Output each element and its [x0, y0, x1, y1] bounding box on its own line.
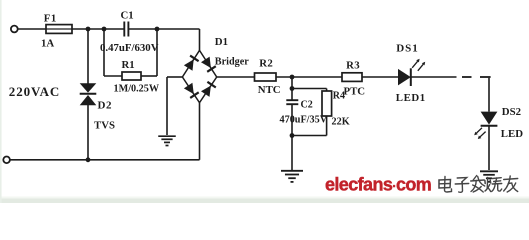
wire: R1 right branch up [141, 75, 157, 77]
wire: bottom terminal to bridge (bottom rail) [10, 159, 200, 161]
svg-text:220VAC: 220VAC [9, 84, 60, 99]
transient suppressor D2 (TVS) [80, 83, 97, 105]
wire: bridge left (DC-) to ground [167, 76, 182, 78]
wire: F1 to C1 left plate (top rail) [72, 28, 124, 30]
junction: C2/R4 tap [290, 75, 295, 80]
junction: D2 on bottom rail [86, 157, 91, 162]
resistor R1 [122, 72, 141, 80]
wire: bridge right (DC+) to R2 [217, 76, 255, 78]
svg-text:1A: 1A [41, 37, 54, 49]
wire: DS1 to dashed continuation [411, 76, 457, 78]
wire: top rail to D2 [87, 29, 89, 84]
wire: R2 to R3 [276, 76, 342, 78]
svg-text:22K: 22K [332, 116, 350, 127]
junction: R1/C1 left node [102, 27, 107, 32]
svg-text:F1: F1 [44, 13, 57, 25]
resistor R2 [255, 73, 277, 81]
terminal: AC input top [11, 26, 18, 33]
capacitor C1 [124, 22, 128, 37]
bottom scan strip [0, 199, 529, 204]
resistor R3 [342, 73, 362, 82]
wire: dashed segment b [480, 76, 491, 78]
wire: node down to C2 [291, 77, 293, 100]
svg-text:D1: D1 [215, 36, 228, 48]
svg-text:PTC: PTC [344, 85, 366, 97]
wire: join down to ground [291, 136, 293, 171]
left scan edge [0, 0, 2, 203]
svg-text:R1: R1 [122, 59, 135, 71]
DS2 light arrows [474, 128, 485, 139]
resistor R4 [322, 91, 332, 116]
junction: D2 tap on top rail [86, 27, 91, 32]
bridge rectifier D1 [182, 50, 216, 102]
capacitor C2 [286, 100, 298, 104]
ground: C2/R4 [281, 171, 303, 182]
svg-text:LED: LED [501, 128, 523, 140]
svg-text:elecfans·com: elecfans·com [325, 175, 431, 195]
wire: down to DS2 [488, 78, 490, 112]
terminal: AC input bottom [3, 157, 10, 164]
wire: C2 bottom down [291, 104, 293, 135]
svg-text:TVS: TVS [94, 120, 115, 132]
svg-text:DS1: DS1 [396, 43, 419, 55]
LED DS2 [481, 112, 498, 126]
wire: D2 to bottom rail [87, 105, 89, 160]
svg-text:Bridger: Bridger [215, 57, 249, 68]
svg-text:NTC: NTC [258, 84, 281, 96]
wire: tap to R4 top [292, 88, 327, 90]
svg-text:0.47uF/630V: 0.47uF/630V [100, 42, 159, 54]
junction: R4 tap [290, 86, 295, 91]
svg-text:1M/0.25W: 1M/0.25W [114, 83, 160, 94]
wire: top terminal to F1 [17, 28, 46, 30]
svg-text:C1: C1 [121, 9, 134, 21]
LED DS1 [398, 68, 411, 86]
wire: R3 to DS1 [362, 76, 398, 78]
svg-text:LED1: LED1 [396, 92, 426, 104]
svg-text:DS2: DS2 [502, 106, 521, 118]
junction: C2/R4 bottom join [290, 133, 295, 138]
wire: bridge bottom to bottom rail [199, 103, 201, 160]
svg-text:R3: R3 [346, 59, 360, 71]
wire: dashed segment a [462, 76, 472, 78]
wire: C1 right plate to bridge top corner (top rail) [128, 28, 199, 30]
fuse F1 [46, 25, 72, 34]
svg-text:470uF/35V: 470uF/35V [280, 114, 328, 125]
svg-text:R2: R2 [259, 58, 273, 70]
ground: DS2 [480, 171, 498, 182]
ground: bridge DC- [158, 136, 176, 145]
wire: DS2 to ground [488, 127, 490, 171]
watermark: Chinese text dian zi fa shao you [439, 176, 518, 193]
junction: R1/C1 right node [155, 27, 160, 32]
DS1 light arrows [412, 59, 425, 71]
wire: R1 left branch down [103, 29, 105, 76]
wire: top rail down to bridge [199, 29, 201, 50]
svg-text:D2: D2 [98, 100, 112, 112]
wire: R4 bottom to join [326, 116, 328, 136]
svg-text:C2: C2 [301, 100, 313, 111]
